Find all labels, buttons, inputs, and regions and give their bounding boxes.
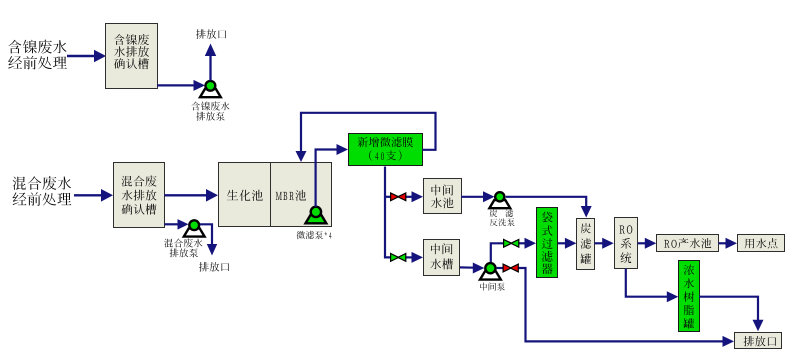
wire T2 to pump P2 [165,219,189,230]
unit U1 RO系统 [615,218,638,269]
tank T3 生化池 / MBR池 [219,162,332,227]
wire F1 bottom drop [385,167,391,258]
pump P2 混合废水排放泵 [184,220,205,236]
wire pump P4 drain to outfall-3 [497,268,734,347]
wire pump P3 to carbon filter top [506,197,592,218]
wire arrow source-1 to tank T1 [67,50,106,63]
wire arrow pump P1 up to outfall-1 [205,44,216,81]
label pump P3 炭滤反洗泵 [490,209,515,226]
wire F2 to carbon filter [558,238,576,249]
wire resin tank to outfall-3 [699,297,764,332]
tank T5 中间水槽 [424,240,460,276]
wire arrow pump P5 to membrane box [316,144,348,207]
wire product tank to use point [719,238,738,249]
valve V3 (green) [504,239,519,247]
label outfall-1 排放口 [196,29,226,39]
pump P5 微滤泵 (inside MBR) [306,207,327,224]
label source-2 混合废水经前处理 [13,176,72,206]
wire pump P4 up to bag filter [491,238,536,262]
wire RO concentrate to resin tank [626,269,679,303]
wire T6 to RO [595,238,614,249]
wire pump P2 to outfall-2 [200,224,217,255]
tank T8 浓水树脂罐 [679,261,700,332]
node 用水点 [738,235,785,252]
tank T6 炭滤罐 [577,219,595,270]
node outfall-3 排放口 [735,333,782,349]
wire arrow source-2 to tank T2 [74,189,113,202]
pump P4 中间泵 [480,263,501,280]
wire return loop F1 to MBR [296,113,436,162]
label source-1 含镍废水经前处理 [8,40,67,70]
pump P3 炭滤反洗泵 [489,192,510,208]
wire valve branch to T5 中间水槽 [406,252,423,263]
label pump P5 微滤泵*4 [297,231,332,239]
label pump P1 含镍废水排放泵 [191,101,229,120]
wire T4 to pump P3 [461,191,495,202]
tank T1 含镍废水排放确认槽 [106,24,158,89]
tank T2 混合废水排放确认槽 [114,163,165,228]
valve V4 (red) [503,264,518,272]
label pump P2 混合废水排放泵 [164,238,202,257]
filter F1 新增微滤膜（40支） [349,134,423,166]
valve V2 (green) [391,254,406,262]
filter F2 袋式过滤器 [537,208,558,278]
tank T7 RO产水池 [657,235,719,252]
pump P1 含镍废水排放泵 [200,81,221,97]
wire RO to product tank [638,238,657,249]
wire T5 to pump P4 [460,263,484,274]
valve V1 (red) [391,193,406,201]
wire branch to T4 中间水池 [385,191,423,202]
label pump P4 中间泵 [480,282,505,290]
wire T1 to pump P1 [157,80,205,91]
wire arrow T2 to bio tank [165,189,219,202]
tank T4 中间水池 [424,179,462,214]
label outfall-2 排放口 [199,262,229,272]
